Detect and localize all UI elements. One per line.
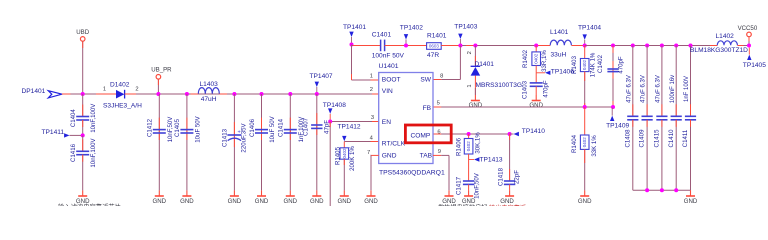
power VCC50: [738, 25, 758, 46]
svg-text:1: 1: [103, 86, 106, 92]
pin 5: [437, 100, 440, 106]
capacitor C1409: [639, 46, 653, 191]
node junction: [645, 188, 649, 192]
pin 8: [440, 74, 443, 80]
node junction: [611, 44, 615, 48]
node junction: [232, 92, 236, 96]
wire FB: [433, 106, 613, 108]
svg-text:TPS54360QDDARQ1: TPS54360QDDARQ1: [379, 169, 445, 176]
svg-text:R1404: R1404: [571, 134, 578, 153]
note clipped red: [489, 204, 526, 212]
svg-text:UB_PR: UB_PR: [151, 67, 172, 74]
svg-text:3: 3: [371, 115, 374, 121]
svg-text:C1415: C1415: [654, 129, 661, 148]
svg-text:TP1402: TP1402: [400, 25, 423, 32]
svg-text:GND: GND: [684, 198, 698, 205]
svg-text:TP1411: TP1411: [42, 129, 65, 136]
svg-text:C1408: C1408: [624, 129, 631, 148]
wire VOUT: [585, 45, 718, 47]
svg-text:C1407: C1407: [303, 117, 310, 136]
svg-text:470pF: 470pF: [543, 80, 550, 98]
test point TP1407: [310, 73, 333, 94]
svg-text:1nF 100V: 1nF 100V: [684, 76, 690, 102]
svg-text:10uF 50V: 10uF 50V: [269, 115, 276, 142]
pin 3: [371, 115, 374, 121]
svg-text:10uF 50V: 10uF 50V: [194, 115, 201, 142]
resistor R1403: [571, 46, 596, 108]
svg-text:0402: 0402: [534, 53, 539, 64]
ground: [255, 190, 269, 205]
svg-text:GND: GND: [284, 198, 298, 205]
node UBD junction: [81, 92, 85, 96]
inductor L1401: [550, 29, 585, 58]
svg-text:2: 2: [135, 86, 138, 92]
svg-text:输出电容靠近: 输出电容靠近: [489, 204, 526, 206]
svg-text:MBRS3100T3G: MBRS3100T3G: [476, 82, 523, 89]
svg-text:L1402: L1402: [716, 33, 735, 40]
svg-text:C1417: C1417: [455, 176, 462, 195]
svg-text:TP1412: TP1412: [338, 123, 361, 130]
svg-text:R1402: R1402: [522, 49, 529, 68]
svg-text:0402: 0402: [466, 141, 471, 152]
svg-text:TP1404: TP1404: [578, 25, 601, 32]
capacitor C1417: [455, 160, 480, 199]
resistor R1401: [427, 32, 447, 58]
test point TP1404: [578, 25, 601, 46]
svg-text:47uF 6.3V: 47uF 6.3V: [641, 75, 647, 103]
capacitor C1402: [597, 46, 624, 108]
svg-text:TP1410: TP1410: [522, 128, 545, 135]
node junction: [185, 92, 189, 96]
wire: [71, 93, 117, 95]
inductor L1402: [690, 33, 749, 54]
svg-text:GND: GND: [228, 198, 242, 205]
capacitor C1416: [70, 137, 97, 167]
node VCC50 junction: [747, 44, 751, 48]
svg-text:R1403: R1403: [571, 55, 578, 74]
svg-text:散热焊盘接地良好: 散热焊盘接地良好: [438, 204, 488, 207]
power UB_PR: [151, 67, 172, 94]
svg-text:GND: GND: [500, 198, 514, 205]
svg-text:GND: GND: [364, 198, 378, 205]
note clipped 2: [438, 204, 488, 212]
svg-text:47uF 6.3V: 47uF 6.3V: [626, 75, 632, 103]
ground: [338, 190, 352, 205]
node UB_PR junction: [156, 92, 160, 96]
capacitor C1408: [624, 46, 638, 191]
node junction: [645, 44, 649, 48]
svg-text:TP1401: TP1401: [343, 24, 366, 31]
ground: [529, 101, 543, 109]
capacitor C1410: [668, 46, 682, 191]
pin 4: [370, 135, 374, 141]
power UBD: [76, 29, 89, 94]
capacitor C1414: [278, 94, 305, 190]
ground: [153, 190, 167, 205]
svg-text:BOOT: BOOT: [382, 77, 401, 84]
svg-text:0603: 0603: [429, 44, 440, 49]
svg-text:VCC50: VCC50: [738, 25, 758, 32]
svg-text:GND: GND: [180, 198, 194, 205]
ground: [684, 190, 698, 205]
svg-text:R1401: R1401: [427, 32, 447, 39]
svg-text:GND: GND: [469, 102, 483, 109]
test point TP1403: [454, 24, 477, 46]
svg-text:C1406: C1406: [249, 118, 256, 137]
svg-text:C1413: C1413: [222, 128, 229, 147]
svg-text:10nF,50V: 10nF,50V: [167, 116, 174, 143]
test point TP1402: [400, 25, 423, 46]
svg-text:GND: GND: [382, 153, 397, 160]
inductor L1403: [198, 81, 219, 103]
svg-text:174K 1%: 174K 1%: [589, 52, 596, 77]
highlight COMP: [405, 125, 451, 143]
resistor R1404: [571, 107, 598, 190]
svg-text:C1404: C1404: [70, 109, 77, 128]
test point TP1408: [323, 102, 346, 122]
svg-text:1: 1: [467, 84, 473, 87]
svg-text:D1402: D1402: [110, 81, 130, 88]
svg-text:C1418: C1418: [498, 167, 505, 186]
node junction: [689, 44, 693, 48]
svg-text:R1406: R1406: [455, 137, 462, 156]
wire: [352, 45, 381, 47]
resistor R1402: [522, 44, 548, 73]
capacitor C1401: [372, 32, 405, 60]
op-amp U1401: [379, 63, 445, 176]
svg-text:COMP: COMP: [411, 133, 431, 140]
port DP1401: [22, 88, 89, 98]
wire TAB pin9: [433, 155, 449, 190]
svg-text:470pF: 470pF: [617, 56, 624, 74]
svg-text:C1401: C1401: [372, 32, 392, 39]
wire SW: [433, 46, 460, 80]
svg-text:TP1409: TP1409: [606, 123, 629, 130]
svg-text:GND: GND: [153, 198, 167, 205]
svg-text:6: 6: [437, 129, 440, 135]
capacitor C1406: [249, 94, 276, 190]
node junction: [583, 105, 587, 109]
svg-text:EN: EN: [382, 119, 391, 126]
svg-text:22pF: 22pF: [513, 170, 520, 184]
pin 1: [370, 74, 373, 80]
svg-text:30K,1%: 30K,1%: [475, 132, 482, 154]
node TP1411 junction: [81, 133, 85, 137]
diode D1402: [103, 81, 142, 109]
node EN junction: [328, 120, 332, 124]
wire EN: [330, 121, 379, 123]
svg-text:C1411: C1411: [682, 129, 689, 147]
svg-text:GND: GND: [255, 198, 269, 205]
svg-text:TP1405: TP1405: [743, 62, 766, 69]
test point TP1406: [536, 68, 574, 75]
svg-text:100nF 16v: 100nF 16v: [670, 75, 676, 103]
svg-text:C1410: C1410: [668, 129, 675, 148]
node junction: [660, 188, 664, 192]
svg-text:GND: GND: [338, 198, 352, 205]
capacitor C1411: [682, 46, 696, 191]
ground: [76, 190, 90, 205]
svg-text:C1402: C1402: [597, 54, 604, 73]
test point TP1401: [343, 24, 366, 44]
svg-text:C1409: C1409: [639, 129, 646, 148]
svg-text:47uH: 47uH: [201, 96, 217, 103]
ground: [364, 190, 378, 205]
svg-text:TAB: TAB: [420, 153, 433, 160]
svg-text:U1401: U1401: [379, 63, 399, 70]
svg-text:GND: GND: [578, 198, 592, 205]
svg-text:7: 7: [367, 150, 370, 156]
wire: [385, 45, 427, 47]
diode D1401: [467, 44, 522, 101]
test point TP1409: [606, 108, 629, 130]
svg-text:TP1407: TP1407: [310, 73, 333, 80]
svg-text:C1416: C1416: [70, 143, 77, 162]
ground: [180, 190, 194, 205]
capacitor C1412: [147, 94, 174, 190]
wire GND pin7: [371, 155, 379, 190]
svg-text:C1414: C1414: [278, 118, 285, 137]
node junction: [315, 92, 319, 96]
test point TP1410: [510, 128, 546, 136]
svg-text:DP1401: DP1401: [22, 88, 46, 95]
resistor R1405: [335, 142, 356, 191]
node junction: [288, 92, 292, 96]
svg-text:33R,1%: 33R,1%: [541, 50, 548, 72]
svg-text:0402: 0402: [582, 137, 587, 148]
wire: [329, 122, 331, 207]
svg-text:S3JHE3_A/H: S3JHE3_A/H: [103, 102, 142, 109]
node junction: [631, 44, 635, 48]
wire BOOT: [352, 45, 379, 81]
capacitor C1403: [521, 73, 549, 101]
test point TP1413: [469, 156, 503, 163]
resistor R1406: [455, 132, 481, 160]
svg-text:VIN: VIN: [382, 88, 393, 95]
svg-text:TP1403: TP1403: [454, 24, 477, 31]
svg-text:8: 8: [440, 74, 443, 80]
node TP1401 junction: [350, 43, 354, 47]
ground: [469, 101, 483, 109]
ground: [500, 190, 514, 205]
svg-text:0402: 0402: [582, 60, 587, 71]
svg-text:2: 2: [370, 87, 373, 93]
node TP1402 junction: [404, 44, 408, 48]
svg-text:BLM18KG300TZ1D: BLM18KG300TZ1D: [690, 47, 748, 54]
svg-text:TP1413: TP1413: [480, 156, 503, 163]
svg-text:220uF,35V: 220uF,35V: [240, 122, 247, 152]
node junction: [611, 105, 615, 109]
wire COMP: [433, 133, 510, 135]
svg-text:10nF,100V: 10nF,100V: [90, 137, 97, 167]
pin 2: [370, 87, 373, 93]
svg-text:47uF 6.3V: 47uF 6.3V: [656, 75, 662, 103]
svg-text:GND: GND: [310, 198, 324, 205]
wire: [82, 120, 84, 135]
capacitor C1405: [174, 94, 201, 190]
svg-text:UBD: UBD: [76, 29, 89, 36]
test point TP1411: [42, 129, 83, 138]
svg-text:100nF 50V: 100nF 50V: [372, 52, 405, 59]
wire gnd rail: [633, 189, 691, 191]
capacitor C1413: [222, 94, 248, 190]
svg-text:0402: 0402: [342, 148, 347, 159]
wire: [82, 155, 84, 191]
pin 7: [367, 150, 370, 156]
node junction: [467, 132, 471, 136]
ground: [442, 190, 456, 205]
ground: [310, 190, 324, 205]
wire: [82, 135, 84, 151]
svg-text:SW: SW: [420, 77, 431, 84]
pin 9: [438, 149, 441, 155]
ground: [228, 190, 242, 205]
wire: [82, 94, 84, 117]
node junction: [508, 132, 512, 136]
svg-text:C1403: C1403: [521, 80, 528, 99]
svg-text:L1401: L1401: [550, 29, 569, 36]
svg-text:2: 2: [467, 51, 473, 54]
svg-text:47R: 47R: [427, 52, 439, 59]
svg-text:200K 1%: 200K 1%: [349, 146, 356, 171]
node junction: [674, 44, 678, 48]
test point TP1412: [338, 123, 361, 141]
svg-text:FB: FB: [423, 105, 432, 112]
note clipped: [58, 202, 121, 211]
svg-text:R1405: R1405: [335, 146, 342, 165]
svg-text:10nF,100V: 10nF,100V: [90, 103, 97, 133]
test point TP1405: [743, 48, 766, 70]
ground: [462, 190, 476, 205]
svg-text:33uH: 33uH: [551, 51, 567, 58]
ground: [284, 190, 298, 205]
capacitor C1407: [303, 94, 331, 190]
svg-text:33K 1%: 33K 1%: [591, 135, 598, 157]
svg-text:RT/CLK: RT/CLK: [382, 141, 406, 148]
svg-text:C1412: C1412: [147, 118, 154, 137]
node junction: [674, 188, 678, 192]
svg-text:9: 9: [438, 149, 441, 155]
svg-text:1: 1: [370, 74, 373, 80]
svg-text:C1405: C1405: [174, 118, 181, 137]
svg-text:5: 5: [437, 100, 440, 106]
wire: [441, 45, 550, 47]
node junction: [660, 44, 664, 48]
svg-text:GND: GND: [529, 102, 543, 109]
capacitor C1415: [654, 46, 668, 191]
wire: [136, 93, 379, 95]
pin 6: [437, 129, 440, 135]
ground: [578, 190, 592, 205]
svg-text:10nF,50V: 10nF,50V: [474, 172, 481, 199]
capacitor C1418: [498, 134, 521, 190]
node TP1404 junction: [583, 44, 587, 48]
node junction: [260, 92, 264, 96]
node TP1403 junction: [458, 44, 462, 48]
svg-text:TP1408: TP1408: [323, 102, 346, 109]
capacitor C1404: [70, 103, 97, 133]
wire RT/CLK: [344, 141, 378, 143]
